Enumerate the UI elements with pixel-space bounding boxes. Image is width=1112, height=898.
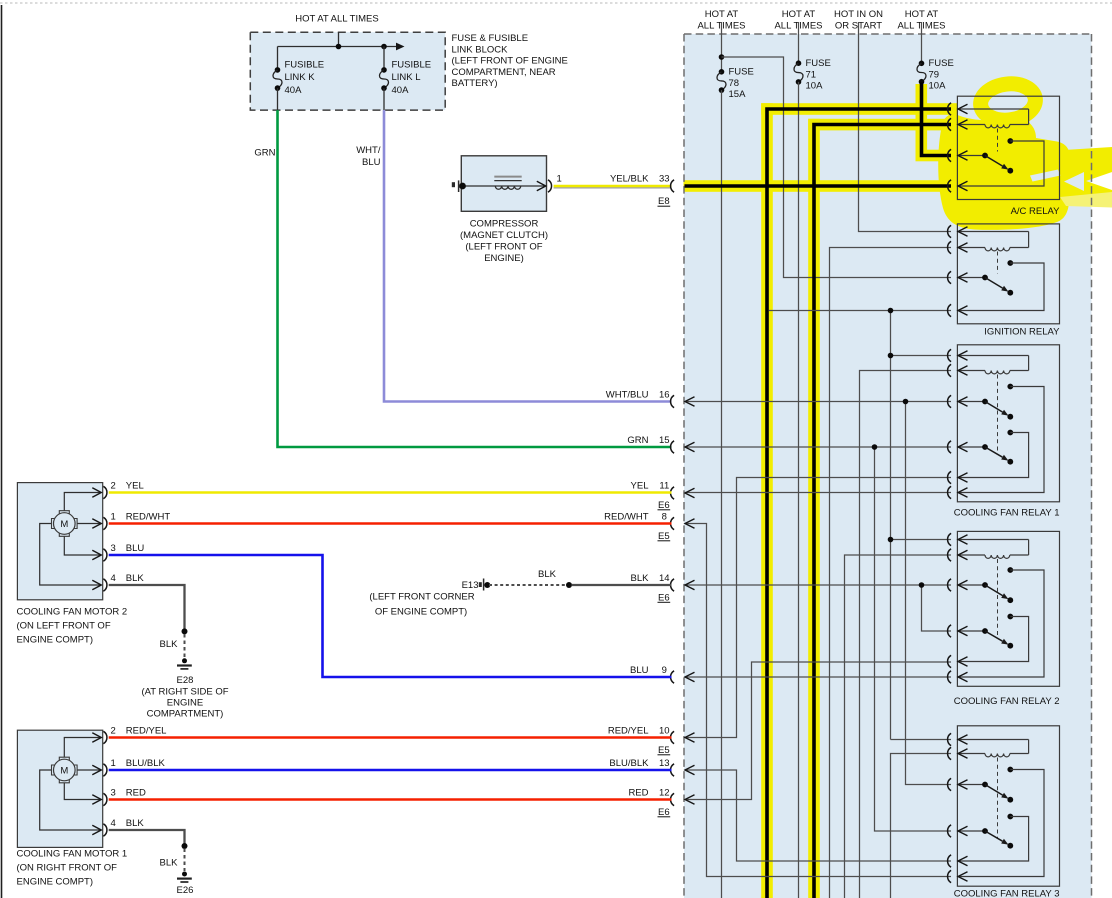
wire: fuse 79 supply column: [921, 22, 923, 63]
svg-text:8: 8: [662, 511, 667, 522]
svg-text:16: 16: [659, 389, 670, 400]
svg-text:9: 9: [662, 665, 667, 676]
highlighter scribble mass over A/C relay: [938, 113, 1070, 230]
svg-text:15A: 15A: [729, 89, 747, 100]
svg-text:(LEFT FRONT OF ENGINE: (LEFT FRONT OF ENGINE: [452, 56, 568, 67]
svg-text:E6: E6: [658, 807, 670, 818]
svg-text:E5: E5: [658, 745, 670, 756]
compressor coil core lines: [494, 176, 521, 178]
svg-text:BLU: BLU: [362, 157, 381, 168]
node: battery stub junction: [336, 44, 342, 50]
svg-text:10A: 10A: [929, 81, 947, 92]
svg-text:E6: E6: [658, 592, 670, 603]
svg-text:(ON LEFT FRONT OF: (ON LEFT FRONT OF: [17, 620, 111, 631]
svg-text:E6: E6: [658, 500, 670, 511]
wire: fuse 71 output down off-page: [798, 82, 800, 898]
relay U1: A/C RELAY: [948, 96, 1060, 199]
node: junction relay 1 pin 1: [888, 353, 894, 359]
wire RED/YEL motor1 pin2 to relay box: [109, 736, 672, 739]
power distribution box dashed border right: [1091, 34, 1093, 898]
wire BLK motor1 pin4 to ground E26: [109, 830, 185, 846]
wire BLU/BLK row 13 to relay 3 pin 5: [685, 770, 951, 861]
svg-text:BLK: BLK: [538, 569, 557, 580]
svg-text:HOT AT: HOT AT: [705, 9, 739, 20]
svg-text:YEL/BLK: YEL/BLK: [610, 174, 649, 185]
svg-text:E5: E5: [658, 531, 670, 542]
wire (thick): YEL/BLK row to A/C relay pin 4: [685, 184, 952, 188]
svg-text:40A: 40A: [392, 85, 410, 96]
svg-text:14: 14: [659, 573, 670, 584]
ground E28: [141, 628, 228, 719]
svg-text:COMPARTMENT): COMPARTMENT): [147, 709, 224, 720]
highlighter band on bus B vertical: [808, 119, 820, 898]
highlighter band on bus A horizontal to A/C relay pin 1: [761, 103, 958, 115]
highlighter band on A/C relay switch feed row: [916, 150, 959, 162]
wire: WHT/BLU branch to relay 3 switch 1 common: [906, 402, 952, 785]
node: junction GRN branch: [872, 444, 878, 450]
svg-text:78: 78: [729, 78, 740, 89]
wire YEL row 11 to relay 1 pin 6: [685, 492, 951, 494]
svg-text:COOLING FAN RELAY 1: COOLING FAN RELAY 1: [954, 508, 1060, 519]
svg-text:(MAGNET CLUTCH): (MAGNET CLUTCH): [460, 230, 548, 241]
svg-text:BLU/BLK: BLU/BLK: [126, 758, 166, 769]
fusible link L 40A: [383, 47, 385, 70]
svg-text:4: 4: [111, 573, 116, 584]
svg-text:HOT IN ON: HOT IN ON: [834, 9, 883, 20]
svg-text:15: 15: [659, 435, 670, 446]
wire: cooling fan relay 3 pin 1 feed: [891, 739, 952, 741]
wire BLU row 9 to relay 2 pin 6: [685, 676, 951, 678]
svg-text:FUSE: FUSE: [806, 58, 831, 69]
svg-text:1: 1: [557, 174, 562, 185]
wire YEL motor2 pin2 to relay box: [109, 491, 672, 494]
svg-text:(LEFT FRONT OF: (LEFT FRONT OF: [465, 241, 542, 252]
svg-text:GRN: GRN: [627, 435, 648, 446]
wire: BLK branch to relay 2 switch 2 common: [922, 585, 952, 631]
svg-text:HOT AT: HOT AT: [782, 9, 816, 20]
wire RED motor1 pin3 to relay box: [109, 798, 672, 801]
svg-text:LINK L: LINK L: [392, 72, 421, 83]
svg-text:ENGINE COMPT): ENGINE COMPT): [17, 634, 94, 645]
svg-text:RED/WHT: RED/WHT: [126, 512, 171, 523]
wire: ignition output vertical to fan relay coil feeds: [890, 311, 892, 740]
svg-text:RED: RED: [126, 788, 146, 799]
svg-text:BLK: BLK: [126, 573, 145, 584]
svg-text:4: 4: [111, 818, 116, 829]
svg-text:3: 3: [111, 543, 116, 554]
svg-text:LINK K: LINK K: [285, 72, 316, 83]
svg-text:YEL: YEL: [631, 480, 649, 491]
wire BLK row 14 to relay 2 switch 1 common: [685, 584, 951, 586]
svg-text:ENGINE): ENGINE): [484, 253, 524, 264]
highlighter scribble ring over A/C relay top: [979, 81, 1038, 123]
wire: ignition relay coil return down off-page: [830, 248, 952, 898]
svg-text:COOLING FAN MOTOR 1: COOLING FAN MOTOR 1: [17, 849, 128, 860]
ground E26: [160, 843, 194, 896]
svg-text:10A: 10A: [806, 81, 824, 92]
wire BLU/BLK motor1 pin1 to relay box: [109, 769, 672, 772]
wire (thick) bus A: A/C relay pin 1 feed, down off-page: [767, 109, 951, 898]
page frame: left border line: [1, 5, 3, 898]
wire: cooling fan relay 1 coil return down off-page: [860, 371, 952, 898]
svg-text:BLK: BLK: [126, 818, 145, 829]
relay K3: COOLING FAN RELAY 3: [948, 726, 1060, 886]
svg-text:40A: 40A: [285, 85, 303, 96]
svg-text:(ON RIGHT FRONT OF: (ON RIGHT FRONT OF: [17, 863, 118, 874]
svg-text:FUSIBLE: FUSIBLE: [285, 60, 325, 71]
compressor (magnet clutch) box: [461, 156, 546, 212]
svg-text:COOLING FAN RELAY 3: COOLING FAN RELAY 3: [954, 888, 1060, 898]
wire WHT/BLU from fusible link L: [384, 110, 672, 401]
node: fuse 78 / bypass junction: [719, 54, 725, 60]
svg-text:M: M: [60, 765, 68, 776]
wire: cooling fan relay 1 pin 1 feed: [891, 355, 952, 357]
svg-text:GRN: GRN: [254, 148, 275, 159]
svg-text:COOLING FAN RELAY 2: COOLING FAN RELAY 2: [954, 696, 1060, 707]
connector brackets and arrows at relay box left edge: [671, 180, 675, 192]
svg-text:A/C RELAY: A/C RELAY: [1011, 206, 1061, 217]
svg-text:FUSE: FUSE: [929, 58, 954, 69]
svg-text:WHT/: WHT/: [356, 145, 381, 156]
relay K1: COOLING FAN RELAY 1: [948, 345, 1060, 502]
svg-text:2: 2: [111, 726, 116, 737]
svg-text:COMPARTMENT, NEAR: COMPARTMENT, NEAR: [452, 67, 556, 78]
svg-text:(AT RIGHT SIDE OF: (AT RIGHT SIDE OF: [141, 686, 228, 697]
wire: battery stub into fusible link block: [338, 32, 340, 46]
power distribution box dashed border top: [684, 33, 1092, 35]
highlighter band on bus A vertical: [761, 103, 773, 898]
wire: cooling fan relay 3 coil return down off-page: [891, 754, 952, 898]
wire YEL/BLK compressor to relay box: [554, 185, 672, 188]
svg-text:ENGINE COMPT): ENGINE COMPT): [17, 877, 94, 888]
node: junction WHT/BLU branch: [903, 399, 909, 405]
wire GRN row 15 to relay 1 switch 2 common: [685, 446, 951, 448]
svg-text:E13: E13: [462, 580, 479, 591]
fusible link K 40A: [277, 47, 279, 70]
power distribution box background fill: [684, 34, 1092, 898]
node: junction BLK branch: [919, 582, 925, 588]
svg-text:13: 13: [659, 758, 670, 769]
motor M1: COOLING FAN MOTOR 1: [17, 726, 167, 888]
svg-text:M: M: [60, 519, 68, 530]
svg-text:BATTERY): BATTERY): [452, 78, 498, 89]
compressor clutch coil L1: [495, 186, 520, 189]
wire RED/YEL row 10 to relay 1 pin 5: [685, 478, 951, 738]
motor M2: COOLING FAN MOTOR 2: [17, 481, 171, 646]
svg-text:E26: E26: [177, 885, 194, 896]
svg-text:RED/YEL: RED/YEL: [126, 726, 167, 737]
svg-text:E28: E28: [177, 675, 194, 686]
highlighter band on YEL/BLK compressor feed row: [684, 180, 959, 192]
node: fusible link L junction: [381, 44, 387, 50]
highlighter band on fuse 79 output: [916, 84, 928, 161]
svg-text:COOLING FAN MOTOR 2: COOLING FAN MOTOR 2: [17, 607, 128, 618]
wire: bus inside fusible link block with arrow: [278, 46, 402, 48]
svg-text:OF ENGINE COMPT): OF ENGINE COMPT): [375, 606, 467, 617]
wire: ignition relay output row: [769, 310, 951, 312]
svg-text:33: 33: [659, 174, 670, 185]
wire (thick): fuse 79 output to A/C relay switch common: [922, 83, 952, 156]
power distribution box dashed border left: [683, 34, 685, 898]
wire (thick) bus B: A/C relay coil return, down off-page: [814, 125, 951, 898]
highlighter gap streaks (background shows through): [1030, 170, 1061, 182]
wire: fuse 71 supply column: [798, 22, 800, 63]
svg-text:WHT/BLU: WHT/BLU: [606, 389, 649, 400]
node: junction relay 2 pin 1: [888, 537, 894, 543]
svg-text:1: 1: [111, 758, 116, 769]
svg-text:2: 2: [111, 481, 116, 492]
svg-text:BLK: BLK: [160, 639, 179, 650]
svg-text:FUSIBLE: FUSIBLE: [392, 60, 432, 71]
node: junction ignition output row: [888, 308, 894, 314]
svg-text:11: 11: [659, 480, 669, 491]
wire: GRN branch to relay 3 switch 2 common: [875, 447, 952, 831]
wire RED row 12 to relay 2 pin 5: [685, 662, 951, 800]
wire BLU motor2 pin3 to relay box: [109, 555, 672, 677]
wire BLK motor2 pin4 to ground E28: [109, 585, 185, 631]
wire WHT/BLU row 16 to relay 1 switch 1 common: [685, 401, 951, 403]
compressor case connector symbol: [452, 182, 455, 187]
highlighter pale strip under swash: [1060, 192, 1112, 208]
wire RED/WHT motor2 pin1 to relay box: [109, 522, 672, 525]
svg-text:FUSE & FUSIBLE: FUSE & FUSIBLE: [452, 33, 529, 44]
svg-text:RED/YEL: RED/YEL: [608, 725, 649, 736]
svg-text:BLU: BLU: [630, 665, 649, 676]
svg-text:3: 3: [111, 788, 116, 799]
svg-text:71: 71: [806, 69, 817, 80]
svg-text:BLU: BLU: [126, 543, 145, 554]
svg-text:FUSE: FUSE: [729, 67, 754, 78]
svg-text:BLU/BLK: BLU/BLK: [609, 758, 649, 769]
svg-text:BLK: BLK: [631, 573, 650, 584]
highlighter band on bus B horizontal to A/C relay pin 2: [808, 119, 958, 131]
svg-text:COMPRESSOR: COMPRESSOR: [470, 218, 539, 229]
page frame: top dotted line: [0, 2, 1112, 4]
compressor internal wire: [462, 185, 546, 187]
highlighter swash to right edge: [1049, 147, 1112, 200]
wire: fuse 78 supply column: [721, 22, 723, 72]
svg-text:1: 1: [111, 512, 116, 523]
wire: cooling fan relay 2 pin 1 feed: [891, 539, 952, 541]
svg-text:10: 10: [659, 725, 670, 736]
fuse 79 10A: [919, 61, 925, 67]
svg-text:YEL: YEL: [126, 481, 144, 492]
svg-text:E8: E8: [658, 196, 670, 207]
fuse 71 10A: [796, 60, 802, 66]
svg-text:RED/WHT: RED/WHT: [604, 511, 649, 522]
relay U2: IGNITION RELAY: [948, 224, 1060, 324]
wire RED/WHT row 8 to relay 3 pin 6: [685, 524, 951, 877]
svg-text:RED: RED: [628, 787, 648, 798]
fuse 78 15A: [719, 69, 725, 75]
svg-text:BLK: BLK: [160, 858, 179, 869]
fuse & fusible link block dashed box: [250, 32, 445, 110]
wire: cooling fan relay 2 coil return down off-page: [845, 555, 952, 898]
svg-text:HOT AT ALL TIMES: HOT AT ALL TIMES: [295, 13, 378, 24]
wire: ignition supply column to ignition relay pin 1: [859, 22, 952, 232]
ground E13 with BLK pigtail: [369, 569, 671, 617]
wire GRN from fusible link K: [278, 110, 672, 447]
wire: battery bypass to ignition relay common: [722, 57, 952, 278]
svg-text:IGNITION RELAY: IGNITION RELAY: [984, 327, 1060, 338]
svg-text:ENGINE: ENGINE: [167, 697, 203, 708]
svg-text:(LEFT FRONT CORNER: (LEFT FRONT CORNER: [369, 591, 474, 602]
svg-text:79: 79: [929, 69, 940, 80]
svg-text:LINK BLOCK: LINK BLOCK: [452, 44, 509, 55]
svg-text:HOT AT: HOT AT: [905, 9, 939, 20]
compressor pin 1 arrow and bracket: [537, 181, 546, 191]
wire: fuse 78 output down off-page: [721, 90, 723, 898]
relay K2: COOLING FAN RELAY 2: [948, 531, 1060, 686]
svg-text:12: 12: [659, 787, 670, 798]
